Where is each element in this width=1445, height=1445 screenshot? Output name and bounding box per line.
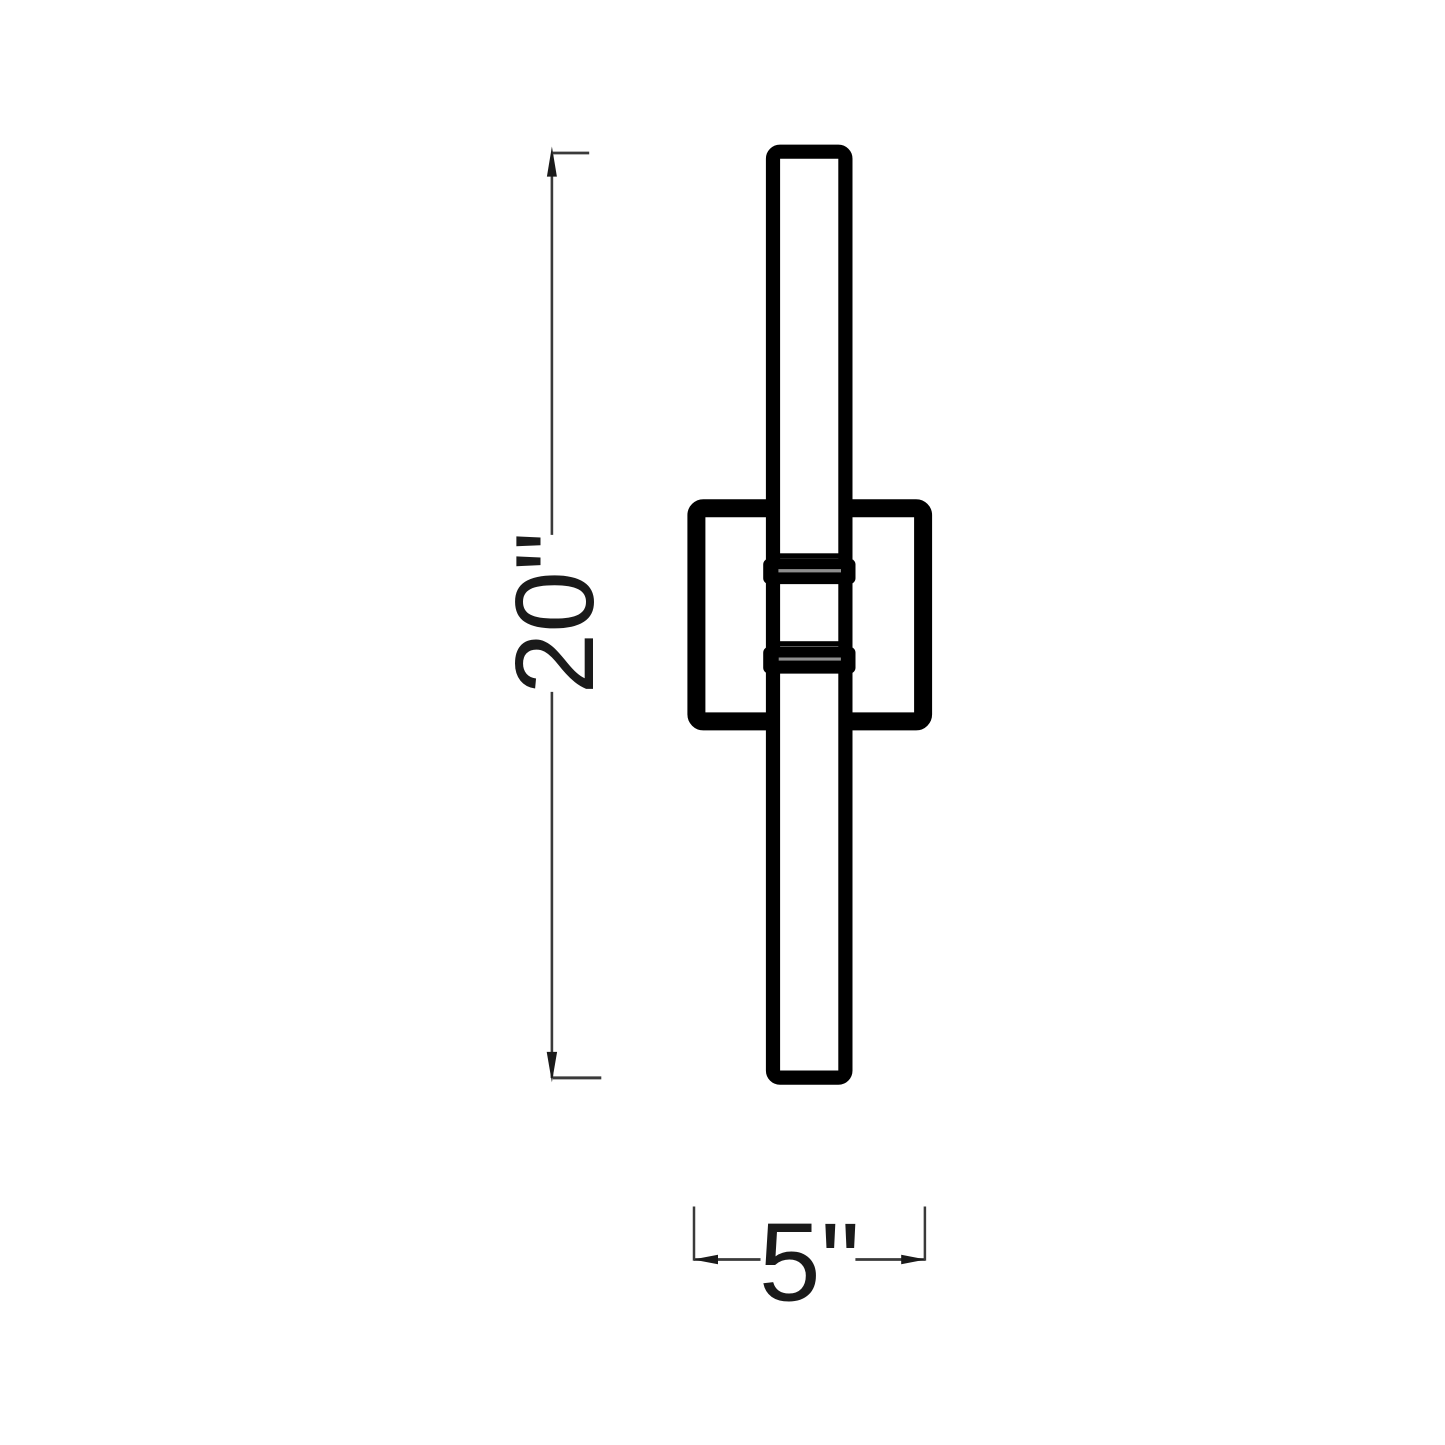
right tick: [924, 1207, 927, 1261]
lower band seam: [779, 658, 841, 661]
vertical dimension line 20" upper segment: [551, 155, 554, 535]
tube body: [773, 152, 845, 1078]
svg-text:5": 5": [759, 1201, 860, 1325]
bottom tick: [553, 1076, 602, 1079]
upper band: [763, 559, 855, 585]
bottom arrowhead: [547, 1052, 557, 1082]
vertical dimension line 20" lower segment: [551, 692, 554, 1078]
left arrowhead: [693, 1255, 718, 1265]
top tick: [553, 152, 590, 155]
svg-text:20": 20": [493, 532, 617, 695]
top arrowhead: [547, 147, 557, 177]
upper band seam: [778, 569, 841, 572]
lower glass joint line: [779, 641, 841, 646]
upper glass joint line: [779, 553, 841, 558]
backplate: [696, 508, 923, 721]
horizontal dimension line 5" left segment: [694, 1258, 761, 1261]
lower band: [763, 647, 855, 674]
right arrowhead: [901, 1255, 926, 1265]
horizontal dimension line 5" right segment: [855, 1258, 925, 1261]
left tick: [693, 1207, 696, 1261]
